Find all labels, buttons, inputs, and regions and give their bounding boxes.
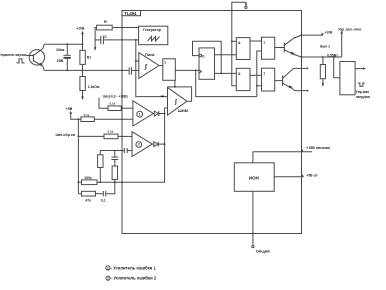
resistor 5.1k lower	[81, 117, 94, 122]
pulse symbol input	[16, 59, 24, 63]
svg-text:нагрузка: нагрузка	[356, 95, 370, 99]
svg-text:Генератор: Генератор	[143, 28, 161, 32]
output transistor T2	[275, 80, 283, 82]
error amp OR line	[97, 108, 165, 182]
comparator line risers	[257, 51, 262, 97]
svg-text:5,1к: 5,1к	[84, 113, 90, 117]
svg-text:- Усилитель ошибки 1: - Усилитель ошибки 1	[111, 265, 157, 270]
label box TL494	[122, 11, 141, 16]
wire bottom bus	[44, 69, 129, 71]
+10V supply arrow	[81, 31, 84, 34]
wire to FF clock	[175, 69, 199, 71]
svg-text:100к: 100к	[84, 176, 92, 180]
resistor R1	[80, 50, 85, 64]
svg-text:Упр. вкл.-откл.: Упр. вкл.-откл.	[338, 27, 362, 31]
svg-text:5,1к: 5,1к	[110, 102, 116, 106]
svg-text:D: D	[202, 54, 205, 58]
legend circle 1	[106, 266, 110, 270]
svg-text:Вых 1: Вых 1	[320, 44, 330, 48]
svg-text:Управление запуском: Управление запуском	[0, 53, 26, 57]
svg-text:TL494: TL494	[124, 11, 137, 16]
sawtooth glyph	[148, 37, 160, 42]
IC boundary box TL494	[122, 11, 302, 234]
svg-text:ШИМ: ШИМ	[178, 108, 188, 113]
top terminal	[232, 2, 246, 10]
diode VD2	[154, 142, 158, 147]
resistor 47k + cap 0.1	[78, 193, 81, 195]
svg-text:&: &	[238, 41, 241, 45]
sawtooth bus	[136, 40, 168, 97]
junction dots (wire junctions)	[66, 10, 334, 235]
svg-text:+10В: +10В	[325, 30, 333, 34]
wire collector top	[44, 43, 82, 45]
svg-text:∫: ∫	[174, 99, 177, 106]
svg-text:25В: 25В	[57, 59, 64, 63]
error amp 2	[132, 132, 152, 157]
svg-text:+10В: +10В	[76, 26, 85, 30]
generator box	[139, 26, 168, 45]
resistor 1.5k	[82, 70, 84, 76]
load resistor	[322, 57, 324, 65]
legend circle 2	[106, 276, 110, 280]
series capacitor DTC input	[128, 67, 130, 74]
svg-text:0,1: 0,1	[101, 199, 106, 203]
wire comparator output	[159, 65, 163, 67]
svg-text:R: R	[104, 20, 107, 24]
riser left	[77, 119, 79, 194]
svg-text:Общий: Общий	[256, 249, 270, 254]
svg-text:2: 2	[107, 277, 109, 281]
D feedback wire	[193, 41, 222, 73]
input transistor Q1	[29, 50, 44, 65]
svg-text:2: 2	[138, 143, 140, 147]
ION box	[234, 163, 274, 192]
svg-text:Uвх(-0,3 - +10В): Uвх(-0,3 - +10В)	[103, 94, 128, 98]
PWM comparator output loop	[168, 87, 192, 101]
svg-text:+5В оп: +5В оп	[306, 174, 317, 178]
svg-text:C: C	[104, 35, 107, 39]
AND gate 2	[236, 68, 250, 90]
svg-text:- Усилитель ошибки 2: - Усилитель ошибки 2	[111, 276, 157, 281]
svg-text:10мк: 10мк	[56, 48, 65, 52]
svg-text:0,55Вт: 0,55Вт	[327, 53, 338, 57]
svg-text:+5В: +5В	[66, 107, 73, 111]
svg-text:1: 1	[164, 60, 166, 64]
pulse glyph load	[358, 83, 365, 86]
svg-text:1: 1	[263, 71, 265, 75]
diode VD1	[154, 111, 158, 116]
compensation network	[99, 151, 101, 155]
svg-text:Uвх.обр.св: Uвх.обр.св	[56, 133, 76, 137]
svg-text:1: 1	[139, 112, 141, 116]
control bus	[232, 11, 237, 86]
error amp 1	[133, 101, 153, 126]
AND gate 1	[236, 38, 250, 60]
svg-text:1,5кОм: 1,5кОм	[88, 85, 100, 89]
OR gate small box	[163, 59, 176, 81]
resistor Rt	[97, 25, 113, 30]
input resistor 5.1k upper	[99, 98, 108, 109]
svg-text:5,1к: 5,1к	[108, 130, 114, 134]
svg-text:1: 1	[263, 40, 265, 44]
flip flop	[199, 48, 215, 79]
svg-text:47к: 47к	[85, 199, 91, 203]
resistor 100k	[82, 180, 98, 185]
wire base input	[26, 55, 33, 57]
output transistor T1	[275, 47, 285, 49]
capacitor Ct	[95, 39, 100, 41]
svg-text:∫: ∫	[144, 64, 147, 71]
load box	[334, 57, 340, 78]
svg-text:ИОН: ИОН	[249, 176, 260, 181]
svg-text:Пила: Пила	[145, 53, 155, 57]
OR gate 1	[262, 37, 275, 59]
Q wires	[215, 54, 237, 56]
OR gate 2	[262, 68, 275, 91]
svg-text:&: &	[238, 72, 241, 76]
svg-text:R1: R1	[87, 56, 91, 60]
svg-text:Упр-мая: Упр-мая	[356, 90, 369, 94]
dead-time comparator (Pila)	[139, 53, 159, 79]
+10V pin wire	[302, 34, 323, 36]
svg-text:1: 1	[107, 266, 109, 270]
input wire and resistor 5.1k	[78, 135, 104, 137]
+5V arrow terminal	[69, 111, 72, 114]
capacitor C 10mk	[66, 44, 68, 55]
feedback capacitor	[123, 148, 125, 153]
svg-text:+15В питания: +15В питания	[306, 146, 330, 150]
emitter pin wire	[302, 56, 342, 58]
PWM comparator	[168, 88, 187, 116]
